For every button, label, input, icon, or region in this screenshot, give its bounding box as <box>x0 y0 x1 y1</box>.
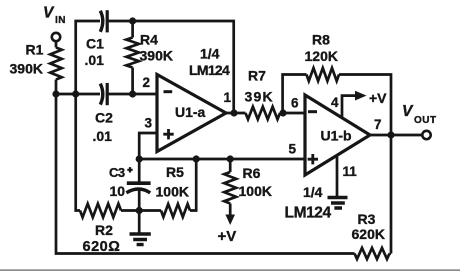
svg-text:620Ω: 620Ω <box>83 239 121 255</box>
svg-text:.01: .01 <box>85 52 105 68</box>
svg-text:2: 2 <box>143 75 151 90</box>
svg-text:4: 4 <box>331 95 339 110</box>
svg-text:5: 5 <box>289 142 297 157</box>
svg-text:6: 6 <box>291 96 299 111</box>
svg-text:120K: 120K <box>305 48 338 64</box>
svg-text:LM124: LM124 <box>285 205 332 222</box>
svg-text:U1-b: U1-b <box>321 128 352 144</box>
svg-text:V: V <box>402 103 414 120</box>
svg-text:11: 11 <box>343 164 358 179</box>
svg-text:1/4: 1/4 <box>200 46 220 62</box>
svg-text:+V: +V <box>218 228 237 245</box>
svg-text:+V: +V <box>369 90 387 106</box>
svg-text:C1: C1 <box>86 36 104 52</box>
svg-text:IN: IN <box>55 15 66 26</box>
svg-text:3: 3 <box>145 116 153 131</box>
svg-text:7: 7 <box>374 117 382 132</box>
svg-text:LM124: LM124 <box>189 62 230 78</box>
svg-text:R2: R2 <box>95 222 113 238</box>
svg-text:R4: R4 <box>140 32 158 48</box>
svg-text:R1: R1 <box>26 42 44 58</box>
svg-text:R8: R8 <box>312 32 330 48</box>
svg-text:100K: 100K <box>156 184 189 200</box>
svg-text:C3: C3 <box>109 165 125 180</box>
svg-text:R6: R6 <box>243 165 261 181</box>
svg-text:390K: 390K <box>140 48 173 64</box>
svg-text:R3: R3 <box>358 211 376 227</box>
svg-text:U1-a: U1-a <box>175 104 206 120</box>
svg-text:390K: 390K <box>10 61 43 77</box>
svg-text:V: V <box>43 5 55 22</box>
svg-text:.01: .01 <box>93 128 113 144</box>
svg-text:C2: C2 <box>95 110 113 126</box>
svg-text:100K: 100K <box>239 183 272 199</box>
svg-text:10: 10 <box>110 183 126 199</box>
svg-text:OUT: OUT <box>414 115 437 126</box>
svg-text:1: 1 <box>224 90 232 105</box>
svg-text:39K: 39K <box>245 89 274 105</box>
svg-text:620K: 620K <box>352 226 385 242</box>
svg-text:1/4: 1/4 <box>303 184 323 200</box>
svg-text:R7: R7 <box>248 68 266 84</box>
svg-text:R5: R5 <box>166 164 184 180</box>
